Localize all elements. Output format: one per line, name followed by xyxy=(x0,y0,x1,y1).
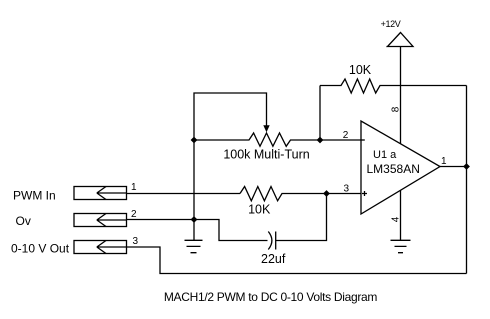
svg-text:2: 2 xyxy=(131,209,137,220)
resistor R2 10K body xyxy=(240,187,361,201)
svg-text:U1 a: U1 a xyxy=(373,149,397,161)
op-amp output wire xyxy=(440,166,467,168)
svg-text:22uf: 22uf xyxy=(261,252,286,266)
potentiometer wiper arrowhead xyxy=(263,125,269,132)
svg-text:100k Multi-Turn: 100k Multi-Turn xyxy=(223,148,309,162)
wire capacitor to pin3 node xyxy=(276,194,327,241)
junction node pin3 xyxy=(323,190,330,197)
svg-text:10K: 10K xyxy=(349,63,372,77)
op-amp minus input tick xyxy=(361,139,365,141)
svg-text:LM358AN: LM358AN xyxy=(367,162,420,176)
svg-text:MACH1/2 PWM to DC 0-10 Volts D: MACH1/2 PWM to DC 0-10 Volts Diagram xyxy=(164,290,378,304)
svg-text:4: 4 xyxy=(391,216,402,222)
svg-text:PWM In: PWM In xyxy=(13,189,56,203)
op-amp plus sign pin3 xyxy=(362,191,367,196)
connector J3 0-10 V Out xyxy=(74,241,127,254)
connector J2 Ov xyxy=(74,214,127,227)
svg-text:3: 3 xyxy=(133,236,139,247)
capacitor C1 22uf straight plate xyxy=(275,232,277,250)
svg-text:2: 2 xyxy=(343,130,349,141)
junction node pot left xyxy=(191,137,198,144)
potentiometer loop wire xyxy=(194,93,267,140)
svg-text:8: 8 xyxy=(391,106,402,112)
junction node output xyxy=(463,163,470,170)
wire +12V to pin 8 xyxy=(400,47,402,145)
pin 4 wire xyxy=(400,191,402,241)
svg-text:3: 3 xyxy=(344,183,350,194)
op-amp U1 triangle xyxy=(361,121,440,214)
svg-text:Ov: Ov xyxy=(16,214,31,228)
resistor R feedback 10K zigzag xyxy=(320,79,467,93)
junction node pin2 xyxy=(317,137,324,144)
wire PWM In to R2 xyxy=(127,193,241,195)
svg-text:0-10 V Out: 0-10 V Out xyxy=(11,242,70,256)
ground symbol (left) xyxy=(185,240,203,252)
junction node Ov rail xyxy=(191,216,198,223)
wire Ov to capacitor xyxy=(127,220,268,241)
wire feedback left leg down to pin2 node xyxy=(319,86,321,141)
svg-text:+12V: +12V xyxy=(381,19,401,29)
ground symbol (op-amp) xyxy=(391,240,411,252)
svg-text:10K: 10K xyxy=(248,202,271,216)
svg-text:1: 1 xyxy=(131,182,137,193)
capacitor C1 22uf curved plate xyxy=(268,232,272,250)
power +12V triangle symbol xyxy=(387,33,414,47)
svg-text:1: 1 xyxy=(441,156,447,167)
potentiometer RV1 100k body xyxy=(194,133,361,146)
wire right rail (feedback/output/bottom) xyxy=(466,86,468,274)
wire left vertical rail xyxy=(193,140,195,240)
wire 0-10V Out to bottom rail xyxy=(127,247,467,274)
connector J1 PWM In xyxy=(74,187,127,200)
